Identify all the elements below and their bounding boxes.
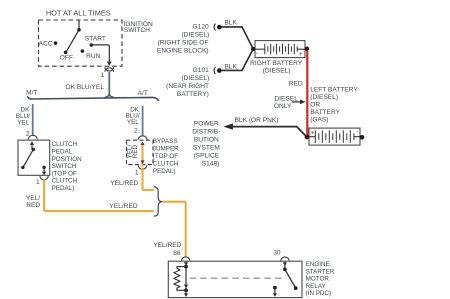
yellow wire brace to relay [163,202,186,257]
svg-text:YEL/RED: YEL/RED [109,203,137,210]
svg-text:RED: RED [289,80,303,87]
svg-text:M/T: M/T [26,90,37,97]
relay switch input [284,262,286,270]
svg-text:G120: G120 [193,24,209,31]
svg-text:+: + [299,51,303,58]
svg-text:BYPASS: BYPASS [153,138,178,145]
ignition switch lever [66,30,79,52]
red wire right battery to left battery [306,51,308,136]
svg-text:30: 30 [273,250,281,257]
contact START [90,43,94,47]
wire DK BLU/YEL ignition to bus [108,72,110,97]
wire M/T branch DK BLU/YEL [32,104,34,135]
connector 30 at relay [281,257,289,261]
yellow wire from bypass jumper [143,168,154,190]
relay coil terminal line [185,262,187,296]
relay switch output contact [273,286,277,290]
svg-text:OR: OR [310,102,320,109]
connector pin 1 bypass jumper [138,165,146,169]
svg-text:1: 1 [36,179,40,186]
svg-text:RED: RED [26,202,40,209]
relay coil [174,267,186,291]
contact RUN [81,49,85,53]
svg-text:CLUTCH: CLUTCH [153,161,179,168]
left battery + junction [305,135,310,140]
svg-text:MOTOR: MOTOR [306,276,330,283]
contact OFF [64,51,68,55]
connector at clutch switch [28,135,37,139]
svg-text:STARTER: STARTER [306,268,335,275]
svg-text:86: 86 [173,250,181,257]
svg-text:ENGINE BLOCK): ENGINE BLOCK) [157,48,209,55]
svg-text:BATTERY): BATTERY) [177,91,209,98]
svg-text:(DIESEL): (DIESEL) [310,94,338,101]
right battery box [255,41,305,58]
svg-text:(GAS): (GAS) [310,117,328,124]
svg-text:-: - [256,51,258,57]
svg-text:RED: RED [132,144,139,158]
svg-text:PEDAL): PEDAL) [52,185,75,192]
connector at ignition output [105,67,114,72]
relay switch lever [285,269,296,288]
svg-text:YEL/: YEL/ [26,195,40,202]
svg-text:CLUTCH: CLUTCH [52,178,78,185]
right battery cells [265,44,297,55]
svg-text:DK BLU/YEL: DK BLU/YEL [66,84,104,91]
svg-text:BUTION: BUTION [194,137,219,144]
svg-text:(RIGHT SIDE OF: (RIGHT SIDE OF [158,40,209,47]
svg-text:PEDAL: PEDAL [52,149,73,156]
svg-text:JUMPER: JUMPER [153,146,179,153]
svg-text:1: 1 [101,72,105,79]
svg-text:POWER: POWER [194,121,219,128]
ground G120 [214,24,215,31]
svg-text:SWITCH: SWITCH [124,27,150,34]
svg-text:YEL: YEL [17,119,29,126]
svg-text:+: + [311,130,315,137]
svg-text:ENGINE: ENGINE [306,261,330,268]
svg-text:START: START [85,36,106,43]
engine starter motor relay box [168,261,302,297]
svg-text:DISTRIB-: DISTRIB- [192,129,220,136]
wire A/T branch DK BLU/YEL [142,106,144,136]
svg-text:(TOP OF: (TOP OF [52,170,77,177]
svg-text:BATTERY: BATTERY [310,109,340,116]
svg-text:(DIESEL): (DIESEL) [181,75,209,82]
clutch switch input arrow [31,144,33,149]
ignition switch box [39,20,123,66]
svg-text:(SPLICE: (SPLICE [193,153,219,160]
svg-text:RUN: RUN [86,53,101,60]
wire feed into ignition switch [78,20,80,30]
svg-text:BLK: BLK [224,64,237,71]
svg-text:(TOP OF: (TOP OF [153,153,178,160]
svg-text:1: 1 [135,169,139,176]
svg-text:(DIESEL): (DIESEL) [181,32,209,39]
svg-text:ACC: ACC [39,41,53,48]
svg-text:LEFT BATTERY: LEFT BATTERY [310,87,358,94]
wire G101 to right battery [222,49,253,70]
wire START to ignition output [91,45,109,62]
svg-text:YEL/RED: YEL/RED [153,242,181,249]
svg-text:G101: G101 [193,67,209,74]
wire G120 to right battery [222,27,253,49]
svg-text:-: - [356,130,358,136]
svg-text:POSITION: POSITION [52,156,83,163]
svg-text:S148): S148) [202,161,220,168]
svg-text:YEL: YEL [127,119,139,126]
ground G101 [214,67,215,74]
connector pin 1 clutch switch [40,176,48,180]
left battery box [309,128,360,145]
left battery cells [315,130,354,143]
svg-text:PEDAL): PEDAL) [153,168,176,175]
svg-text:SYSTEM: SYSTEM [193,145,220,152]
svg-text:HOT AT ALL TIMES: HOT AT ALL TIMES [46,8,111,17]
clutch switch lever [32,148,35,151]
clutch pedal position switch box [18,140,50,175]
svg-text:(NEAR RIGHT: (NEAR RIGHT [166,83,209,90]
svg-text:(DIESEL): (DIESEL) [263,68,291,75]
bypass jumper box [127,140,154,164]
contact ACC [54,41,58,45]
svg-text:RIGHT BATTERY: RIGHT BATTERY [250,60,303,67]
yellow wire from clutch switch [44,179,154,211]
svg-text:BLK (OR PNK): BLK (OR PNK) [235,117,279,124]
svg-text:2: 2 [134,128,138,135]
svg-text:A/T: A/T [138,90,148,97]
connector at bypass jumper [138,136,147,140]
wire BLK (OR PNK) [232,127,306,137]
svg-text:OFF: OFF [60,54,73,61]
bus wire M/T A/T split [27,96,159,101]
clutch switch output contact [42,166,45,169]
yellow jumper wire inside [141,142,143,167]
brace merging yellow wires [154,187,163,217]
left battery - junction [360,135,365,140]
svg-text:SWITCH: SWITCH [52,163,77,170]
svg-text:CLUTCH: CLUTCH [52,141,78,148]
svg-text:ONLY: ONLY [274,103,292,110]
svg-text:RELAY: RELAY [306,283,327,290]
arrow diesel only [292,101,301,103]
relay internal dashed divider [190,277,284,279]
svg-text:(IN PDC): (IN PDC) [306,290,332,297]
svg-text:BLK: BLK [224,19,237,26]
svg-text:YEL/RED: YEL/RED [110,180,138,187]
svg-text:DIESEL: DIESEL [274,95,298,102]
connector 86 at relay [182,257,190,261]
